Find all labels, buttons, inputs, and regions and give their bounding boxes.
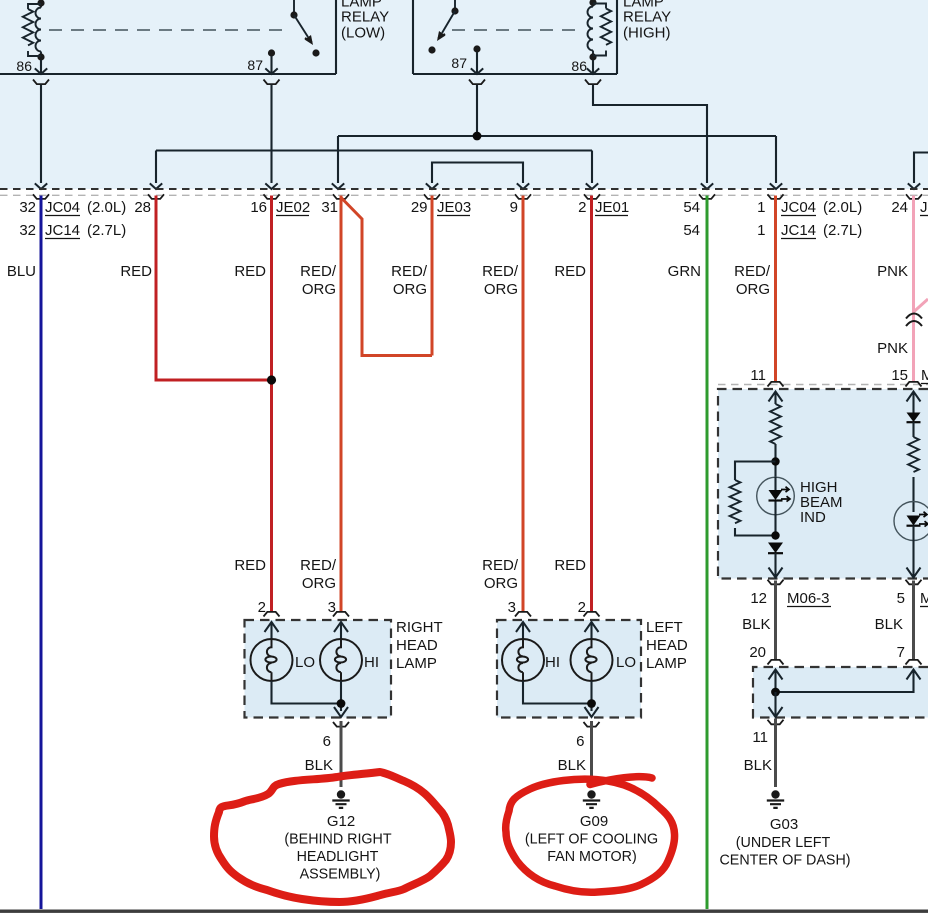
wire BLK 12 to 20 <box>774 581 777 661</box>
svg-text:ORG: ORG <box>484 281 518 298</box>
cluster right branch entry arrow 15 <box>907 392 921 414</box>
svg-text:CENTER OF DASH): CENTER OF DASH) <box>719 853 850 869</box>
svg-text:RED: RED <box>554 263 586 280</box>
svg-text:24: 24 <box>891 199 908 216</box>
relay HIGH switch common <box>451 0 458 15</box>
left lamp LO bulb <box>571 639 613 681</box>
svg-text:86: 86 <box>16 58 32 74</box>
svg-text:FAN MOTOR): FAN MOTOR) <box>547 849 637 865</box>
svg-text:32: 32 <box>19 199 36 216</box>
label RED/ORG 31 lower <box>300 557 337 592</box>
harness boundary dashed line <box>0 188 928 190</box>
label RED/ORG 29 <box>391 263 428 298</box>
left lamp entry arrows <box>516 622 599 639</box>
left lamp pin 6 connector <box>584 722 600 727</box>
connector label 32 JC14 (2.7L) <box>19 222 126 239</box>
svg-text:RED/: RED/ <box>482 263 519 280</box>
svg-text:15: 15 <box>891 367 908 384</box>
wire RED/ORG branch 31 to 29 <box>342 198 433 356</box>
ground G03 <box>767 790 784 808</box>
svg-text:RED/: RED/ <box>300 557 337 574</box>
svg-text:6: 6 <box>323 733 331 750</box>
svg-text:JC14: JC14 <box>45 222 80 239</box>
svg-text:(HIGH): (HIGH) <box>623 25 671 42</box>
relay LOW mechanical link dashed <box>49 29 291 31</box>
wire relay HIGH 86 to connector 54 <box>593 85 713 190</box>
svg-text:ORG: ORG <box>393 281 427 298</box>
svg-text:BLK: BLK <box>744 757 772 774</box>
junction box exit arrow 11 <box>769 692 783 717</box>
LED diode symbol right <box>907 512 928 527</box>
svg-text:1: 1 <box>757 222 765 239</box>
parallel resistor R2 branch <box>730 462 776 536</box>
label 5 M0 <box>897 590 928 607</box>
ground G12 labels <box>284 813 391 883</box>
svg-text:LAMP: LAMP <box>646 655 687 672</box>
svg-text:RELAY: RELAY <box>623 9 671 26</box>
wire relay LOW 87 to connector 16 <box>265 85 277 190</box>
wire BLK left lamp to G09 <box>590 721 593 787</box>
label RED/ORG 9 <box>482 263 519 298</box>
svg-text:JC04: JC04 <box>781 199 816 216</box>
svg-text:LO: LO <box>295 654 315 671</box>
svg-text:JC04: JC04 <box>45 199 80 216</box>
wire RED/ORG from 1 to cluster 11 <box>774 196 777 383</box>
cluster exit cups 12,5 <box>768 580 784 585</box>
right lamp pin 6 connector <box>333 722 349 727</box>
svg-text:RED: RED <box>234 557 266 574</box>
harness boundary gray dashed line <box>0 194 928 196</box>
diode D2 <box>907 413 921 438</box>
svg-text:31: 31 <box>321 199 338 216</box>
diode D1 <box>768 543 783 554</box>
wire relay HIGH 87 to distribution node <box>476 85 478 137</box>
LED diode symbol <box>769 477 791 536</box>
svg-text:HEAD: HEAD <box>396 637 438 654</box>
relay HIGH pin 86 terminal <box>587 60 599 74</box>
relay HIGH coil L2 <box>587 0 596 61</box>
relay LOW pin 87 connector <box>264 80 280 85</box>
svg-text:(2.0L): (2.0L) <box>87 199 126 216</box>
left lamp name <box>646 619 688 672</box>
svg-text:(2.0L): (2.0L) <box>823 199 862 216</box>
svg-text:RIGHT: RIGHT <box>396 619 443 636</box>
svg-text:(2.7L): (2.7L) <box>823 222 862 239</box>
svg-text:JC14: JC14 <box>781 222 816 239</box>
svg-text:JE02: JE02 <box>276 199 310 216</box>
ground G09 <box>583 790 600 808</box>
relay LOW coil L1 <box>36 0 45 61</box>
gray dashed above cluster <box>718 384 928 386</box>
relay HIGH pin 86 connector <box>585 80 601 85</box>
svg-text:BLU: BLU <box>7 263 36 280</box>
wire PNK diagonal from right edge <box>914 299 928 312</box>
relay LOW pin 86 connector <box>33 80 49 85</box>
svg-text:G09: G09 <box>580 813 608 830</box>
relay LOW pin 86 terminal <box>35 60 47 74</box>
relay HIGH coil resistor <box>593 4 611 56</box>
svg-text:M06-3: M06-3 <box>920 590 928 607</box>
svg-text:1: 1 <box>757 199 765 216</box>
wire BLK 5 to 7 <box>912 581 915 661</box>
node junction box <box>771 688 780 697</box>
svg-text:20: 20 <box>749 644 766 661</box>
ground G12 <box>332 790 349 808</box>
relay LOW coil resistor <box>23 4 41 56</box>
svg-text:(LEFT OF COOLING: (LEFT OF COOLING <box>525 832 658 848</box>
svg-text:RELAY: RELAY <box>341 9 389 26</box>
wire RED/ORG from 31 to right lamp HI <box>340 196 343 613</box>
wire drop to connector 1 <box>770 136 782 189</box>
wire RED from 28 to junction <box>156 196 268 381</box>
svg-text:BLK: BLK <box>305 757 333 774</box>
svg-text:16: 16 <box>250 199 267 216</box>
svg-text:LO: LO <box>616 654 636 671</box>
light blue harness region background <box>0 0 928 189</box>
right lamp internal ground wires <box>272 681 349 717</box>
relay LOW switch arm <box>294 15 320 57</box>
label M06-3 cut at edge <box>921 367 928 384</box>
svg-text:(LOW): (LOW) <box>341 25 385 42</box>
relay HIGH switch arm <box>428 11 455 54</box>
svg-text:ORG: ORG <box>302 281 336 298</box>
svg-text:87: 87 <box>451 55 467 71</box>
connector label 16 JE02 <box>250 199 310 216</box>
svg-text:29: 29 <box>411 199 428 216</box>
exit arrow 5 <box>907 526 921 578</box>
left lamp connector hats pins 3,2 <box>515 612 531 617</box>
svg-text:7: 7 <box>897 644 905 661</box>
relay LAMP RELAY (HIGH) box <box>413 0 617 74</box>
left lamp HI bulb <box>502 639 544 681</box>
right lamp HI bulb <box>320 639 362 681</box>
node bottom LED junction <box>771 531 779 539</box>
svg-text:54: 54 <box>683 222 700 239</box>
right lamp entry arrows <box>265 622 349 639</box>
junction box exit cup 11 <box>768 720 784 725</box>
svg-text:RED/: RED/ <box>734 263 771 280</box>
svg-text:LAMP: LAMP <box>396 655 437 672</box>
svg-text:11: 11 <box>750 367 766 384</box>
exit arrow 12 <box>769 553 783 578</box>
label 12 M06-3 <box>750 590 831 607</box>
svg-text:HEAD: HEAD <box>646 637 688 654</box>
svg-text:BLK: BLK <box>558 757 586 774</box>
red annotation circle around G12 <box>214 772 451 902</box>
LED circle right <box>894 502 928 541</box>
svg-text:RED: RED <box>234 263 266 280</box>
right lamp name <box>396 619 443 672</box>
label HIGH BEAM IND <box>800 479 843 526</box>
svg-text:(UNDER LEFT: (UNDER LEFT <box>736 835 831 851</box>
svg-text:2: 2 <box>578 599 586 616</box>
svg-text:(2.7L): (2.7L) <box>87 222 126 239</box>
svg-text:9: 9 <box>510 199 518 216</box>
svg-text:86: 86 <box>571 58 587 74</box>
svg-text:RED/: RED/ <box>391 263 428 280</box>
wire GRN rail <box>706 196 709 910</box>
svg-text:JE03: JE03 <box>437 199 471 216</box>
svg-text:2: 2 <box>578 199 586 216</box>
svg-text:RED: RED <box>120 263 152 280</box>
cluster entry arrow 11 <box>769 392 783 405</box>
wire RED from 2 to left lamp LO <box>590 196 593 613</box>
svg-text:(BEHIND RIGHT: (BEHIND RIGHT <box>284 832 391 848</box>
svg-text:G12: G12 <box>327 813 355 830</box>
svg-text:HI: HI <box>364 654 379 671</box>
svg-text:LEFT: LEFT <box>646 619 683 636</box>
relay LOW pin 87 terminal <box>265 49 277 74</box>
svg-text:RED: RED <box>554 557 586 574</box>
svg-text:PNK: PNK <box>877 340 908 357</box>
wire PNK from 24 to cluster 15 <box>912 196 915 383</box>
wire to right LED <box>912 477 914 512</box>
wire drop to connector 31 <box>332 136 344 189</box>
ground G09 labels <box>525 813 658 865</box>
svg-text:6: 6 <box>576 733 584 750</box>
cluster connector hats 11,15 <box>768 382 784 387</box>
wire BLK right lamp to G12 <box>340 721 343 787</box>
svg-text:54: 54 <box>683 199 700 216</box>
junction connector box <box>753 667 928 718</box>
junction box internal wire <box>776 670 921 693</box>
svg-text:3: 3 <box>508 599 516 616</box>
wire RED/ORG from 9 to left lamp HI <box>522 196 525 613</box>
bottom border bar <box>0 910 928 913</box>
svg-text:M06-3: M06-3 <box>787 590 830 607</box>
red annotation circle around G09 <box>506 777 675 893</box>
svg-text:GRN: GRN <box>668 263 701 280</box>
label RED/ORG 9 lower <box>482 557 519 592</box>
ground G03 labels <box>719 816 850 869</box>
svg-text:87: 87 <box>247 57 263 73</box>
svg-text:12: 12 <box>750 590 767 607</box>
junction box entry arrow 20 <box>769 670 783 693</box>
wire high-beam distribution bus <box>338 135 776 137</box>
wire drop to connector 28 <box>150 151 162 190</box>
svg-text:M06-3: M06-3 <box>921 367 928 384</box>
svg-text:28: 28 <box>134 199 151 216</box>
relay LAMP RELAY (LOW) box <box>0 0 336 74</box>
svg-text:ASSEMBLY): ASSEMBLY) <box>300 867 381 883</box>
node RED junction <box>267 375 276 384</box>
svg-text:G03: G03 <box>770 816 798 833</box>
node high-beam junction <box>473 132 482 141</box>
svg-text:HEADLIGHT: HEADLIGHT <box>297 849 379 865</box>
svg-text:ORG: ORG <box>736 281 770 298</box>
label RED/ORG 1 <box>734 263 771 298</box>
svg-text:PNK: PNK <box>877 263 908 280</box>
connector label 1 JC04 (2.0L) <box>757 199 862 216</box>
svg-text:ORG: ORG <box>484 575 518 592</box>
inline connector on PNK wire <box>906 314 922 327</box>
connector label 2 JE01 <box>578 199 629 216</box>
svg-text:11: 11 <box>752 729 768 746</box>
wire stub from right edge to connector 24 <box>908 153 928 190</box>
right lamp connector hats pins 2,3 <box>264 612 280 617</box>
svg-text:BLK: BLK <box>742 616 770 633</box>
svg-text:32: 32 <box>19 222 36 239</box>
svg-text:ORG: ORG <box>302 575 336 592</box>
relay HIGH pin 87 connector <box>469 80 485 85</box>
svg-text:JC04: JC04 <box>920 199 928 216</box>
label RED/ORG 31 <box>300 263 337 298</box>
junction box hats 20,7 <box>768 660 784 665</box>
relay LOW switch common <box>290 0 297 19</box>
svg-text:IND: IND <box>800 509 826 526</box>
relay HIGH pin 87 terminal <box>471 45 483 74</box>
svg-text:RED/: RED/ <box>300 263 337 280</box>
connector cups at harness row <box>33 194 922 199</box>
wire drop to connector 2 <box>586 151 598 190</box>
wire low-beam distribution bus <box>156 149 592 151</box>
RIGHT HEAD LAMP box <box>245 620 392 718</box>
wire BLK 11 to G03 <box>774 719 777 788</box>
connector label 24 JC <box>891 199 928 216</box>
relay HIGH mechanical link dashed <box>452 29 584 31</box>
wire RED/ORG from 29 down <box>431 196 434 356</box>
resistor R1 <box>770 404 781 444</box>
svg-text:5: 5 <box>897 590 905 607</box>
LED indicator circle <box>757 477 795 515</box>
connector label 29 JE03 <box>411 199 471 216</box>
connector label 1 JC14 (2.7L) <box>757 222 862 239</box>
right lamp LO bulb <box>251 639 293 681</box>
svg-text:RED/: RED/ <box>482 557 519 574</box>
svg-text:JE01: JE01 <box>595 199 629 216</box>
left lamp internal ground wires <box>523 681 599 717</box>
svg-text:3: 3 <box>328 599 336 616</box>
connector label 32 JC04 (2.0L) <box>19 199 126 216</box>
wire BLU left rail <box>40 196 43 910</box>
resistor R3 <box>908 437 919 472</box>
wire bridge JE03 29 to 9 <box>426 163 529 190</box>
wire relay LOW 86 to connector 32 <box>35 85 47 190</box>
svg-text:BLK: BLK <box>875 616 903 633</box>
wire to LED junction <box>774 444 776 477</box>
svg-text:HI: HI <box>545 654 560 671</box>
wire RED from 16 to right lamp LO <box>270 196 273 613</box>
svg-text:2: 2 <box>258 599 266 616</box>
node top LED junction <box>771 457 779 465</box>
instrument cluster box <box>718 389 928 579</box>
LEFT HEAD LAMP box <box>497 620 641 718</box>
